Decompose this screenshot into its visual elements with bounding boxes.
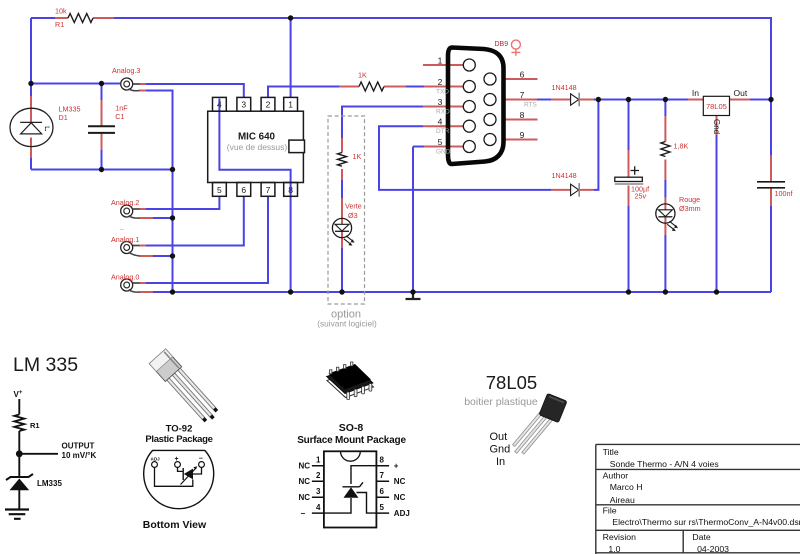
ground bus — [153, 291, 771, 293]
DB9 pin circles right — [484, 73, 496, 146]
svg-text:100nf: 100nf — [775, 189, 793, 198]
svg-text:NC: NC — [299, 477, 311, 486]
wire MIC internal pin4 to pin8 to bus — [219, 99, 290, 293]
wire Out to right corner — [750, 99, 771, 101]
DB9 pin1 stub inner — [440, 64, 464, 66]
svg-text:1N4148: 1N4148 — [552, 171, 577, 180]
wire LM335 internal red lead — [30, 108, 32, 147]
svg-text:6: 6 — [241, 185, 246, 195]
DB9 pin1 stub — [423, 64, 464, 66]
DB9 pin4 stub inner — [440, 125, 464, 127]
svg-text:Plastic Package: Plastic Package — [145, 434, 212, 445]
svg-text:RTS: RTS — [524, 102, 538, 109]
wire horizontal to Analog.3 — [31, 83, 120, 85]
svg-text:5: 5 — [438, 137, 443, 147]
resistor 1K TXD zigzag — [359, 82, 384, 91]
svg-text:6: 6 — [520, 70, 525, 80]
LED Verte leads — [341, 198, 343, 248]
svg-text:4: 4 — [438, 117, 443, 127]
TO-92 bottom view adj arrow — [181, 468, 197, 485]
option dashed box — [328, 116, 365, 304]
svg-text:3: 3 — [438, 97, 443, 107]
svg-text:Gnd: Gnd — [712, 119, 721, 134]
svg-text:78L05: 78L05 — [486, 372, 537, 393]
svg-text:Out: Out — [734, 88, 748, 98]
svg-text:1K: 1K — [358, 71, 367, 80]
wire MIC pin 2 to 1K TXD line — [268, 87, 339, 98]
LM335 figure zener triangle — [10, 479, 30, 491]
DB9 female symbol — [511, 40, 520, 56]
package SO-8 3D drawing — [327, 362, 374, 400]
LM335 figure top wire — [18, 399, 20, 415]
svg-text:File: File — [603, 506, 617, 516]
TO-92 bottom view pin minus — [199, 462, 205, 468]
svg-text:GND: GND — [436, 149, 451, 156]
IC MIC640 body fill — [208, 97, 304, 196]
connector DB9 body fill — [448, 48, 504, 165]
DB9 pin9 stub — [496, 139, 537, 141]
wire TXD to DB9 pin 2 — [406, 86, 424, 88]
svg-text:(suivant logiciel): (suivant logiciel) — [317, 319, 377, 329]
resistor R1 10k zigzag — [68, 14, 93, 23]
svg-text:5: 5 — [217, 185, 222, 195]
svg-text:Analog.2: Analog.2 — [111, 198, 139, 207]
svg-text:Gnd: Gnd — [490, 444, 511, 456]
svg-text:t°: t° — [45, 124, 50, 133]
svg-text:9: 9 — [520, 130, 525, 140]
svg-text:Revision: Revision — [603, 532, 636, 542]
LM335 figure mid wire — [18, 431, 20, 477]
svg-text:TXD: TXD — [436, 89, 449, 96]
wire Analog.2 lower stub — [139, 217, 153, 219]
DB9 pin6 stub — [496, 78, 537, 80]
svg-text:Title: Title — [603, 447, 619, 457]
wire vertical chain node to ground bus — [172, 170, 174, 293]
svg-text:R1: R1 — [30, 421, 40, 430]
LM335 figure output node dot — [16, 450, 23, 457]
LED Verte symbol — [332, 218, 354, 245]
svg-text:7: 7 — [520, 90, 525, 100]
svg-text:Sonde Thermo - A/N 4 voies: Sonde Thermo - A/N 4 voies — [610, 459, 720, 469]
TO-92 bottom view pin plus — [175, 462, 181, 468]
svg-text:04-2003: 04-2003 — [697, 544, 729, 554]
svg-text:R1: R1 — [55, 20, 64, 29]
svg-text:NC: NC — [394, 477, 406, 486]
svg-text:8: 8 — [288, 185, 293, 195]
svg-text:10k: 10k — [55, 7, 67, 16]
svg-text:5: 5 — [380, 503, 385, 512]
svg-text:..: .. — [120, 223, 124, 232]
wire Analog.0 lower stub to ground bus — [139, 291, 153, 293]
svg-text:Verte: Verte — [345, 202, 362, 211]
DB9 pin8 stub — [496, 119, 537, 121]
svg-text:DB9: DB9 — [495, 41, 509, 48]
resistor R1 lead left — [55, 17, 68, 19]
svg-text:NC: NC — [299, 462, 311, 471]
TO-92 bottom view outline — [144, 450, 214, 508]
connector Analog.2 — [121, 205, 140, 218]
svg-text:25v: 25v — [635, 192, 647, 201]
svg-text:Out: Out — [490, 431, 508, 443]
LM335 figure resistor R1 — [14, 415, 24, 432]
SO-8 pinout NC labels — [299, 462, 410, 518]
78L05 In/Out leads — [688, 99, 750, 101]
capacitor 100uf plus sign — [631, 166, 640, 174]
wire left vertical from top rail — [30, 18, 32, 84]
svg-text:In: In — [496, 456, 505, 468]
sensor LM335 D1 symbol — [10, 108, 53, 146]
svg-text:ADJ: ADJ — [151, 457, 161, 462]
LED Rouge leads — [664, 198, 666, 236]
ground symbol — [406, 292, 421, 299]
wire GND line DB9 pin5 — [424, 146, 464, 148]
DB9 signal labels — [436, 89, 538, 156]
diode 1N4148 top — [571, 93, 580, 107]
LM335 figure ground — [5, 510, 29, 519]
SO-8 pinout notch — [341, 451, 361, 461]
svg-text:8: 8 — [380, 456, 385, 465]
TO-92 bottom view pin ADJ — [152, 462, 158, 468]
SO-8 pinout left stubs — [312, 466, 324, 513]
svg-text:Marco H: Marco H — [610, 482, 643, 492]
svg-text:+: + — [394, 462, 399, 471]
TO-92 bottom view zener triangle — [184, 469, 193, 480]
svg-text:boitier plastique: boitier plastique — [464, 396, 538, 408]
wire RTS DB9 pin7 to diode — [496, 99, 537, 101]
TO-92 bottom view zener bar — [182, 468, 184, 480]
svg-text:1K: 1K — [353, 152, 362, 161]
TO-92 bottom view wiring — [155, 467, 202, 486]
wire RXD line DB9 pin3 to option branch — [423, 106, 464, 108]
SO-8 pinout internal circuit — [324, 466, 377, 513]
diode 1N4148 bottom — [571, 183, 580, 197]
svg-text:Rouge: Rouge — [679, 195, 700, 204]
connector Analog.3 — [121, 78, 140, 91]
wire Analog.2 upper stub to MIC pin 5 — [139, 208, 146, 210]
regulator 78L05 box — [703, 96, 729, 115]
svg-text:8: 8 — [520, 110, 525, 120]
svg-text:Aireau: Aireau — [610, 495, 635, 505]
SO-8 pinout zener triangle — [344, 487, 359, 498]
svg-text:In: In — [692, 88, 699, 98]
DB9 pin numbers right — [520, 70, 525, 141]
wire MIC pin 1 to top rail — [290, 18, 292, 97]
svg-text:Analog.0: Analog.0 — [111, 273, 139, 282]
wire LM335 bottom lead — [30, 147, 32, 159]
svg-text:Bottom View: Bottom View — [143, 519, 207, 531]
svg-text:ADJ: ADJ — [394, 509, 410, 518]
svg-text:LM335: LM335 — [37, 479, 62, 488]
resistor R1 lead right — [93, 17, 114, 19]
wire LM335 top lead — [30, 84, 32, 97]
connector Analog.0 — [121, 279, 140, 292]
LM335 figure output wire — [19, 453, 58, 455]
svg-text:2: 2 — [438, 77, 443, 87]
capacitor C1 top lead — [101, 84, 103, 101]
wire diode low to rail node — [594, 100, 598, 190]
svg-text:Date: Date — [692, 532, 711, 542]
SO-8 pinout right stubs — [376, 466, 389, 513]
DB9 pin3 stub inner — [440, 106, 464, 108]
svg-text:1,8K: 1,8K — [674, 142, 689, 151]
capacitor 100uf leads — [628, 100, 630, 151]
svg-text:1: 1 — [288, 100, 293, 110]
svg-text:3: 3 — [316, 487, 321, 496]
svg-text:Ø3: Ø3 — [348, 211, 358, 220]
wire Analog.1 lower stub — [139, 255, 153, 257]
svg-text:Author: Author — [603, 471, 629, 481]
wire Analog.3 upper stub to MIC pin 3 — [139, 83, 146, 85]
svg-text:6: 6 — [380, 487, 385, 496]
svg-text:NC: NC — [394, 493, 406, 502]
svg-text:D1: D1 — [59, 113, 68, 122]
resistor 1K option leads — [341, 138, 343, 180]
DB9 pin6 stub inner — [484, 78, 496, 80]
svg-text:Ø3mm: Ø3mm — [679, 204, 701, 213]
svg-text:+: + — [175, 456, 179, 463]
svg-text:1: 1 — [438, 56, 443, 66]
svg-text:1: 1 — [316, 456, 321, 465]
svg-text:Analog.1: Analog.1 — [111, 235, 139, 244]
diode D-low leads — [551, 189, 594, 191]
LM335 figure bottom wire — [18, 490, 20, 509]
svg-text:SO-8: SO-8 — [339, 422, 364, 434]
svg-text:7: 7 — [380, 471, 385, 480]
SO-8 pinout numbers — [316, 456, 385, 512]
wire top rail left of R1 — [31, 17, 55, 19]
capacitor C1 bottom lead — [101, 134, 103, 150]
DB9 pin8 stub inner — [484, 119, 496, 121]
svg-text:7: 7 — [266, 185, 271, 195]
IC MIC640 pin numbers — [217, 100, 293, 195]
LM335 figure zener bar — [6, 474, 33, 480]
capacitor C1 plates — [88, 126, 115, 133]
svg-text:10 mV/°K: 10 mV/°K — [62, 451, 97, 460]
svg-text:Electro\Thermo sur rs\ThermoCo: Electro\Thermo sur rs\ThermoConv_A-N4v00… — [612, 517, 800, 527]
diode D-top leads — [551, 99, 594, 101]
wire bottom loop LM335 to C1 to node — [31, 169, 173, 171]
title block border — [596, 444, 800, 554]
resistor 1.8K leads — [664, 100, 666, 117]
DB9 pin2 stub inner — [440, 86, 464, 88]
capacitor 100nf plates — [757, 182, 785, 188]
DB9 pin5 stub inner — [440, 146, 464, 148]
resistor 1K TXD leads — [339, 86, 406, 88]
svg-text:OUTPUT: OUTPUT — [62, 442, 95, 451]
wire Analog.0 upper stub to MIC pin 7 — [139, 282, 146, 284]
wire Analog.3 lower stub down to loop node — [139, 90, 146, 92]
svg-text:DTR: DTR — [436, 128, 450, 135]
wire top rail to right corner down to node In-rail — [114, 18, 771, 100]
svg-text:3: 3 — [241, 100, 246, 110]
svg-text:2: 2 — [266, 100, 271, 110]
connector DB9 outline — [448, 48, 504, 165]
DB9 pin9 stub inner — [484, 139, 496, 141]
package 78L05 TO-92 photo — [510, 409, 554, 458]
wire Analog.1 upper stub to MIC pin 6 — [139, 245, 146, 247]
svg-text:Surface Mount Package: Surface Mount Package — [297, 435, 406, 446]
wire main rail diode to In — [594, 99, 688, 101]
DB9 pin7 stub inner — [484, 99, 496, 101]
package TO-92 3D drawing — [149, 349, 222, 426]
DB9 pin numbers left — [438, 56, 443, 148]
svg-text:−: − — [301, 509, 306, 518]
svg-text:1N4148: 1N4148 — [552, 83, 577, 92]
IC MIC640 outlines — [208, 97, 304, 196]
IC MIC640 notch — [289, 140, 305, 153]
svg-text:C1: C1 — [115, 112, 124, 121]
resistor 1.8K zigzag — [661, 142, 670, 157]
svg-text:NC: NC — [299, 493, 311, 502]
resistor 1K option zigzag — [338, 153, 347, 167]
DB9 pin circles left — [463, 59, 475, 153]
svg-text:1.0: 1.0 — [608, 544, 620, 554]
connector Analog.1 — [121, 242, 140, 257]
svg-text:MIC 640: MIC 640 — [238, 132, 276, 143]
svg-text:Analog.3: Analog.3 — [112, 66, 140, 75]
svg-text:−: − — [199, 456, 203, 463]
svg-text:78L05: 78L05 — [706, 102, 727, 111]
SO-8 pinout zener bar — [343, 482, 364, 487]
svg-text:LM 335: LM 335 — [13, 354, 78, 376]
LED Rouge symbol — [656, 204, 678, 231]
svg-text:2: 2 — [316, 471, 321, 480]
svg-text:RXD: RXD — [436, 109, 450, 116]
title block texts — [603, 447, 800, 554]
capacitor 100uf plates — [615, 177, 643, 181]
SO-8 pinout body — [324, 451, 377, 527]
svg-text:4: 4 — [316, 503, 321, 512]
svg-text:4: 4 — [217, 100, 222, 110]
wire DTR line DB9 pin4 — [423, 125, 464, 127]
svg-text:(vue de dessus): (vue de dessus) — [227, 142, 288, 152]
78L05 Gnd lead — [716, 116, 718, 136]
capacitor 100nf leads — [770, 100, 772, 156]
